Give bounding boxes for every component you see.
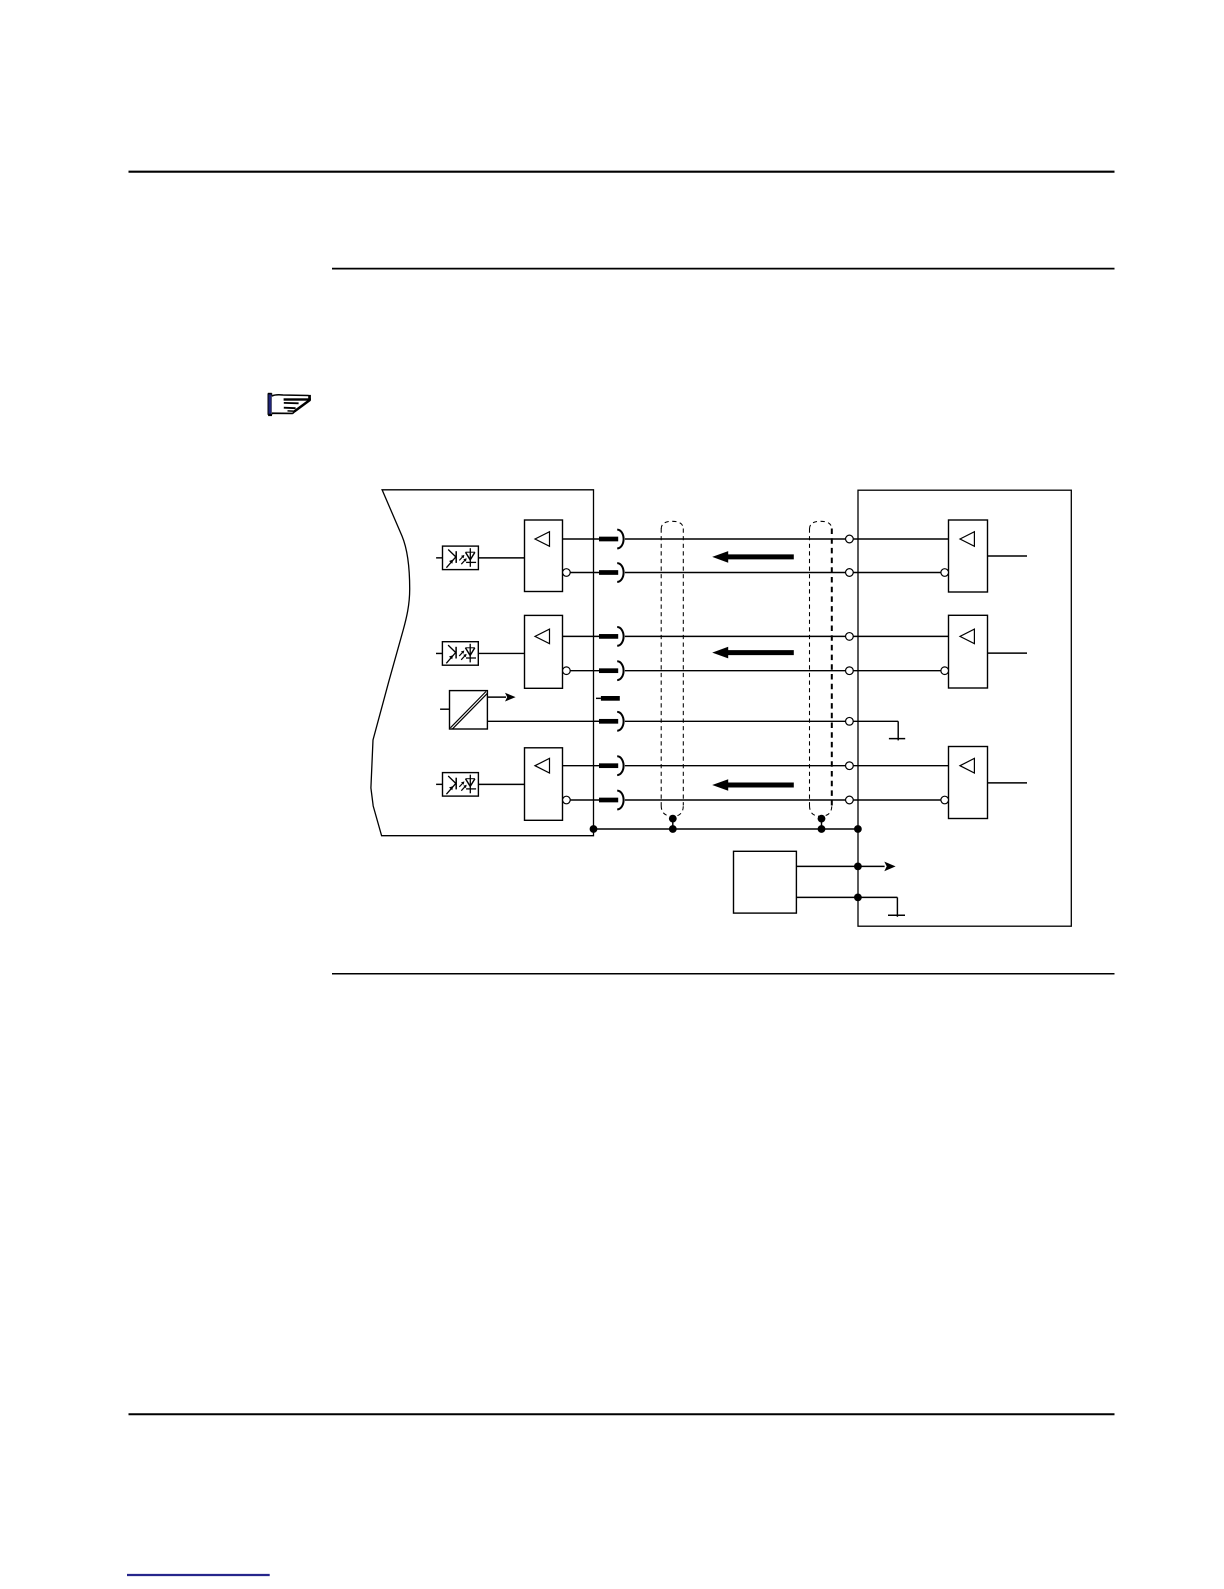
wire 0V <box>625 720 846 722</box>
junction: bus at left unit <box>590 825 598 833</box>
wire: U1 output to receiver U4 <box>478 557 524 559</box>
wire: DC/DC output to terminal 0V <box>487 720 616 722</box>
terminal CHZ+ <box>594 756 624 775</box>
optocoupler U1 (channel A) <box>436 546 478 570</box>
line driver U8 (channel A) <box>853 520 1027 592</box>
wire CHA+ <box>625 538 846 540</box>
figure caption rule <box>332 973 1115 975</box>
junction: PSU - at enclosure <box>854 894 862 902</box>
optocoupler U2 (channel B) <box>436 642 478 666</box>
wire CHZ- <box>625 799 846 801</box>
note icon: pointing hand <box>268 393 311 416</box>
left unit enclosure (torn edge box) <box>371 490 594 836</box>
differential receiver U6 (channel Z) <box>525 748 594 821</box>
wire: 0V to ground <box>853 721 898 740</box>
shielded cable (right shield oval) <box>810 521 832 816</box>
line driver U9 (channel B) <box>853 615 1027 688</box>
connector pin CHB+ <box>846 633 854 641</box>
right shield drain junction <box>818 815 826 833</box>
wire CHB+ <box>625 635 846 637</box>
signal direction arrow (channel B) <box>712 647 794 659</box>
connector pin CHZ- <box>846 796 854 804</box>
signal direction arrow (channel Z) <box>712 779 794 791</box>
footer link underline (blue) <box>127 1574 270 1576</box>
wire CHZ+ <box>625 765 846 767</box>
connector pin CHA+ <box>846 535 854 543</box>
connector pin CHZ+ <box>846 762 854 770</box>
wire: PSU - output <box>796 897 897 916</box>
wire: U2 output to receiver U5 <box>478 652 524 654</box>
optocoupler U3 (channel Z) <box>436 773 478 797</box>
wire CHB- <box>625 670 846 672</box>
terminal 0V <box>594 712 624 731</box>
terminal CHA+ <box>594 530 624 549</box>
wire: PSU + output <box>796 862 895 872</box>
header rule <box>129 171 1115 173</box>
right unit (encoder) enclosure <box>858 490 1071 926</box>
differential receiver U5 (channel B) <box>525 615 594 688</box>
left shield drain junction <box>669 815 677 833</box>
connector pin CHA- <box>846 569 854 577</box>
terminal CHA- <box>594 563 624 582</box>
arrow: DC/DC auxiliary output <box>487 693 515 702</box>
section title rule <box>332 268 1115 270</box>
wire: U3 output to receiver U6 <box>478 783 524 785</box>
terminal CHB+ <box>594 627 624 646</box>
ground (PSU) <box>888 914 905 916</box>
junction: PSU + at enclosure <box>854 863 862 871</box>
terminal CHZ- <box>594 791 624 810</box>
wire CHA- <box>625 572 846 574</box>
signal direction arrow (channel A) <box>712 551 794 563</box>
connector pin 0V <box>846 717 854 725</box>
connector pin CHB- <box>846 667 854 675</box>
unused terminal <box>596 696 620 701</box>
line driver U10 (channel Z) <box>853 747 1027 819</box>
shield/earth bus wire <box>594 828 858 830</box>
shielded cable (left shield oval) <box>661 521 683 816</box>
DC/DC converter U7 <box>440 691 487 730</box>
footer rule <box>129 1413 1115 1415</box>
terminal CHB- <box>594 661 624 680</box>
junction: bus at right unit <box>854 825 862 833</box>
ground (0V reference) <box>889 738 905 740</box>
power supply PSU <box>734 851 797 913</box>
differential receiver U4 (channel A) <box>525 520 594 592</box>
